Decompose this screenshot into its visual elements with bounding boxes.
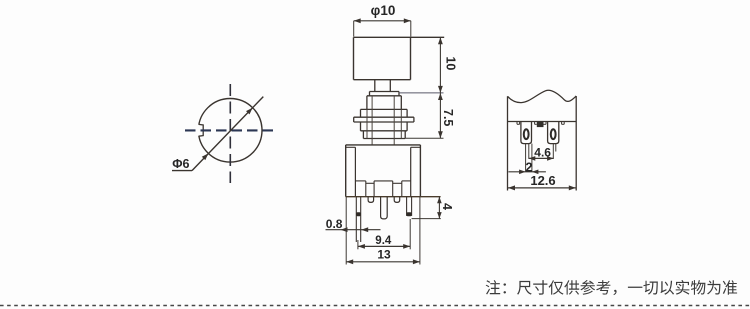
svg-text:4: 4 xyxy=(440,203,454,210)
svg-text:Φ6: Φ6 xyxy=(172,157,189,171)
svg-text:9.4: 9.4 xyxy=(375,235,392,247)
svg-text:7.5: 7.5 xyxy=(441,109,455,126)
svg-text:φ10: φ10 xyxy=(371,3,396,18)
svg-text:0.8: 0.8 xyxy=(326,217,343,231)
svg-text:13: 13 xyxy=(377,248,391,262)
svg-text:12.6: 12.6 xyxy=(530,173,555,188)
svg-text:4.6: 4.6 xyxy=(534,145,551,159)
svg-text:10: 10 xyxy=(443,56,457,70)
